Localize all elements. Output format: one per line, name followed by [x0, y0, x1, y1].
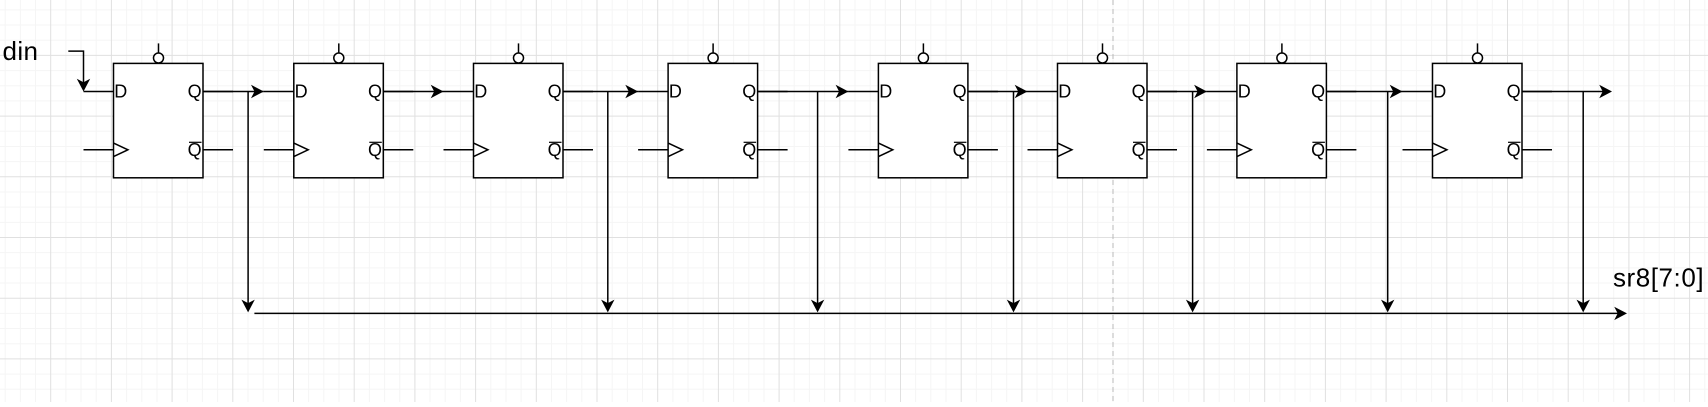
- svg-text:Q: Q: [953, 140, 967, 160]
- preset bubble U5: [918, 43, 928, 63]
- label Qbar U8: [1507, 140, 1521, 160]
- svg-text:Q: Q: [1507, 81, 1521, 101]
- wire tap 2 to bus: [601, 92, 614, 313]
- svg-text:Q: Q: [548, 140, 562, 160]
- preset bubble U4: [708, 43, 718, 63]
- pin D stub U7: [1207, 91, 1237, 93]
- svg-text:D: D: [1238, 81, 1251, 101]
- svg-text:Q: Q: [548, 81, 562, 101]
- pin Q stub U5: [968, 91, 998, 93]
- pin Qbar stub U6: [1147, 149, 1177, 151]
- svg-text:D: D: [669, 81, 682, 101]
- label Qbar U6: [1132, 140, 1146, 160]
- svg-text:Q: Q: [188, 140, 202, 160]
- pin D stub U3: [444, 91, 474, 93]
- pin Qbar stub U3: [563, 149, 593, 151]
- body U3: [474, 63, 564, 177]
- wire din input: [68, 51, 90, 91]
- pin Qbar stub U1: [203, 149, 233, 151]
- pin CLK stub U4: [638, 143, 682, 156]
- pin Q stub U6: [1147, 91, 1177, 93]
- svg-text:Q: Q: [742, 140, 756, 160]
- label Qbar U2: [368, 140, 382, 160]
- wire tap 1 to bus: [241, 92, 254, 313]
- label Qbar U1: [188, 140, 202, 160]
- svg-text:Q: Q: [1311, 81, 1325, 101]
- svg-text:D: D: [474, 81, 487, 101]
- preset bubble U3: [514, 43, 524, 63]
- pin Q stub U4: [758, 91, 788, 93]
- wire Q8 output: [1522, 85, 1612, 98]
- svg-text:sr8[7:0]: sr8[7:0]: [1613, 263, 1704, 293]
- pin CLK stub U6: [1028, 143, 1072, 156]
- pin CLK stub U8: [1403, 143, 1447, 156]
- wire Q5 to D6: [968, 85, 1028, 98]
- wire tap 4 to bus: [1007, 92, 1020, 313]
- wire Q7 to D8: [1326, 85, 1402, 98]
- svg-text:Q: Q: [953, 81, 967, 101]
- wire tap 5 to bus: [1186, 92, 1199, 313]
- pin Q stub U8: [1522, 91, 1552, 93]
- pin Qbar stub U2: [383, 149, 413, 151]
- preset bubble U7: [1277, 43, 1287, 63]
- svg-text:Q: Q: [1507, 140, 1521, 160]
- wire Q1 to D2: [203, 85, 264, 98]
- pin D stub U1: [84, 91, 114, 93]
- wire Q6 to D7: [1147, 85, 1207, 98]
- D flip-flop U2: [264, 43, 414, 177]
- pin Q stub U1: [203, 91, 233, 93]
- pin CLK stub U2: [264, 143, 308, 156]
- D flip-flop U6: [1028, 43, 1178, 177]
- svg-text:D: D: [295, 81, 308, 101]
- preset bubble U1: [154, 43, 164, 63]
- body U8: [1433, 63, 1523, 177]
- D flip-flop U8: [1403, 43, 1553, 177]
- wire Q3 to D4: [563, 85, 638, 98]
- pin Qbar stub U4: [758, 149, 788, 151]
- svg-text:din: din: [3, 36, 39, 66]
- wire tap 6 to bus: [1381, 92, 1394, 313]
- pin Q stub U7: [1326, 91, 1356, 93]
- preset bubble U2: [334, 43, 344, 63]
- svg-text:Q: Q: [1311, 140, 1325, 160]
- pin Q stub U3: [563, 91, 593, 93]
- svg-text:Q: Q: [1132, 81, 1146, 101]
- D flip-flop U4: [638, 43, 788, 177]
- label Qbar U5: [953, 140, 967, 160]
- pin CLK stub U5: [848, 143, 892, 156]
- body U4: [668, 63, 758, 177]
- D flip-flop U3: [444, 43, 594, 177]
- pin D stub U8: [1403, 91, 1433, 93]
- svg-text:Q: Q: [368, 140, 382, 160]
- svg-text:D: D: [1058, 81, 1071, 101]
- wire Q2 to D3: [383, 85, 443, 98]
- label Qbar U7: [1311, 140, 1325, 160]
- svg-text:Q: Q: [188, 81, 202, 101]
- body U2: [294, 63, 384, 177]
- wire tap 3 to bus: [811, 92, 824, 313]
- page boundary dashed line: [1112, 0, 1114, 402]
- pin D stub U2: [264, 91, 294, 93]
- body U6: [1058, 63, 1148, 177]
- preset bubble U6: [1098, 43, 1108, 63]
- wire Q4 to D5: [758, 85, 849, 98]
- pin D stub U4: [638, 91, 668, 93]
- body U1: [114, 63, 204, 177]
- label Qbar U4: [742, 140, 756, 160]
- D flip-flop U5: [848, 43, 998, 177]
- pin Qbar stub U8: [1522, 149, 1552, 151]
- pin Qbar stub U7: [1326, 149, 1356, 151]
- wire tap 7 to bus: [1577, 92, 1590, 313]
- label Qbar U3: [548, 140, 562, 160]
- svg-text:D: D: [879, 81, 892, 101]
- pin D stub U6: [1028, 91, 1058, 93]
- svg-text:Q: Q: [1132, 140, 1146, 160]
- pin D stub U5: [848, 91, 878, 93]
- svg-text:Q: Q: [742, 81, 756, 101]
- body U7: [1237, 63, 1327, 177]
- D flip-flop U7: [1207, 43, 1357, 177]
- bus sr8: [254, 307, 1627, 320]
- svg-text:D: D: [1433, 81, 1446, 101]
- pin CLK stub U7: [1207, 143, 1251, 156]
- pin Qbar stub U5: [968, 149, 998, 151]
- preset bubble U8: [1473, 43, 1483, 63]
- D flip-flop U1: [84, 43, 234, 177]
- svg-text:Q: Q: [368, 81, 382, 101]
- pin Q stub U2: [383, 91, 413, 93]
- pin CLK stub U3: [444, 143, 488, 156]
- svg-text:D: D: [114, 81, 127, 101]
- body U5: [878, 63, 968, 177]
- pin CLK stub U1: [84, 143, 128, 156]
